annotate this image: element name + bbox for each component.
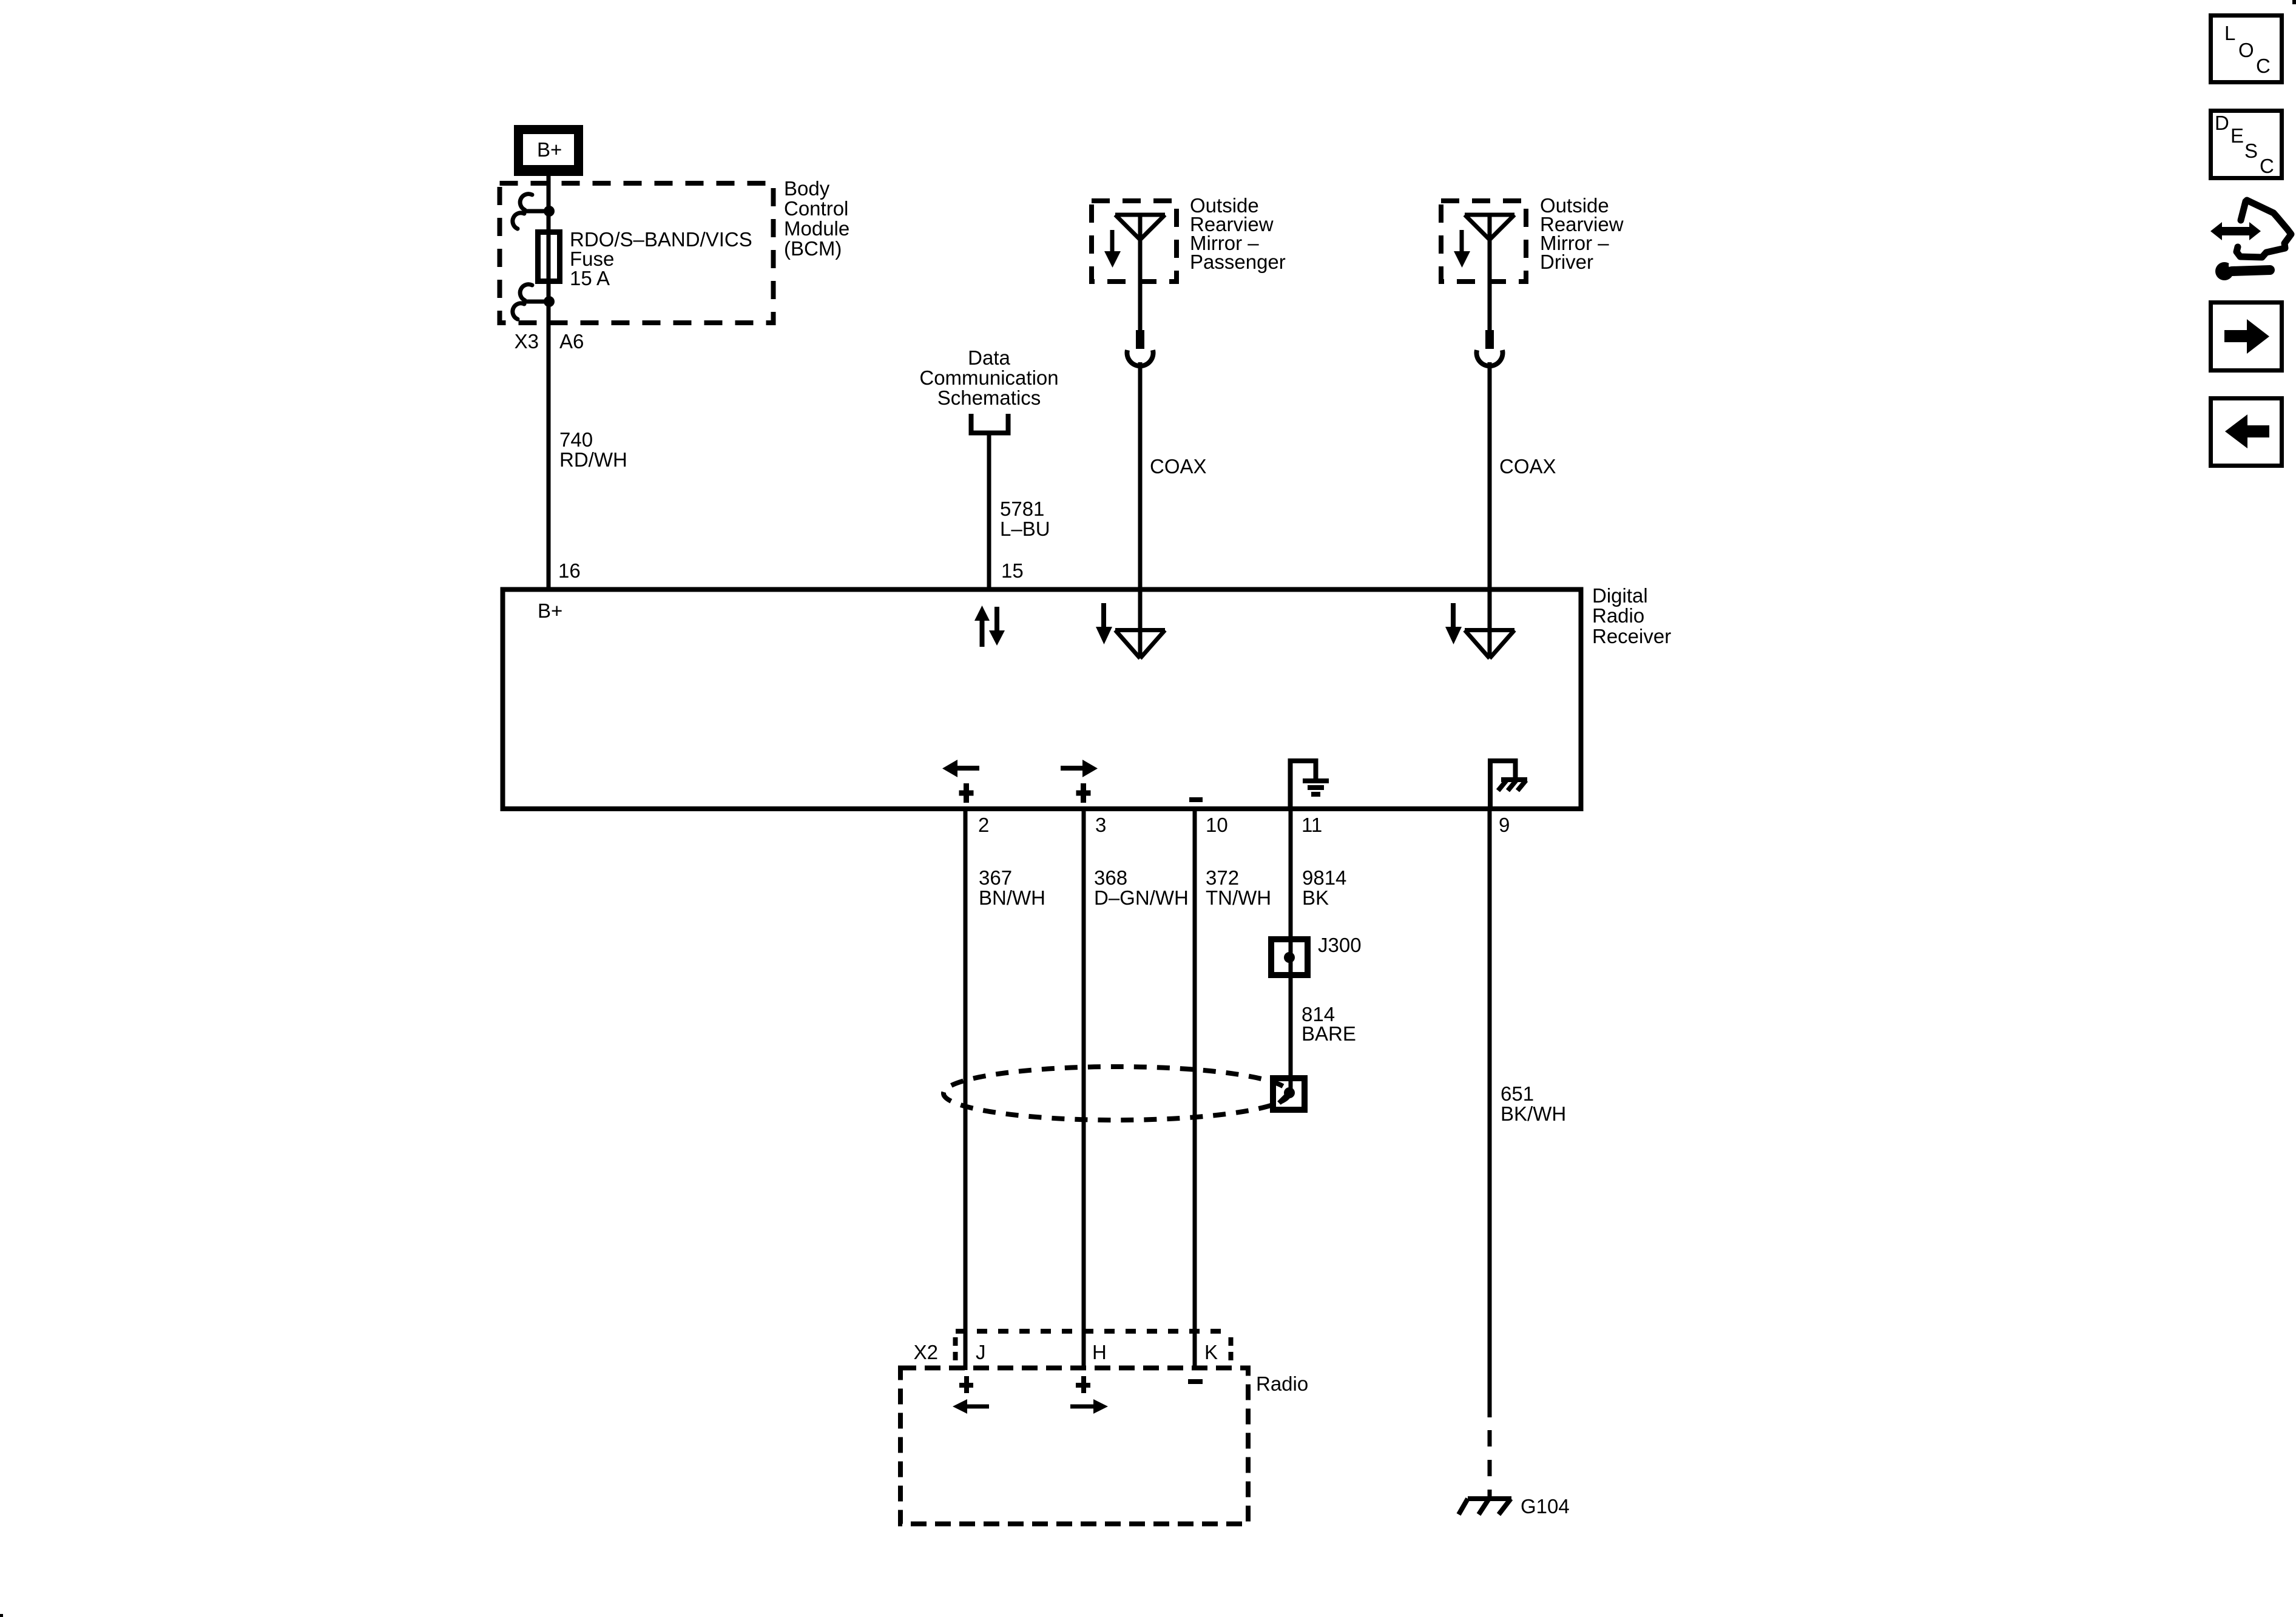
svg-text:G104: G104	[1521, 1495, 1570, 1517]
svg-text:D: D	[2215, 112, 2229, 134]
svg-text:C: C	[2260, 155, 2274, 177]
Outside Rearview Mirror - Driver dashed box	[1441, 201, 1526, 282]
svg-text:RD/WH: RD/WH	[559, 448, 627, 471]
left arrow pin 2	[956, 766, 979, 771]
bidirectional arrows pin 15	[974, 606, 1005, 647]
antenna symbol driver	[1465, 215, 1514, 330]
wire 372 TN/WH	[1193, 811, 1197, 1370]
svg-text:S: S	[2244, 140, 2258, 162]
svg-text:BARE: BARE	[1302, 1022, 1356, 1045]
svg-text:Communication: Communication	[919, 366, 1058, 389]
svg-text:(BCM): (BCM)	[784, 237, 842, 260]
svg-text:9: 9	[1499, 814, 1510, 836]
antenna symbol passenger	[1115, 215, 1165, 330]
wire 651 BK/WH	[1488, 811, 1492, 1417]
svg-text:368: 368	[1094, 866, 1127, 889]
svg-text:Schematics: Schematics	[937, 387, 1041, 409]
svg-text:16: 16	[558, 559, 581, 582]
plus pin H	[1076, 1376, 1090, 1393]
svg-text:X3: X3	[515, 330, 539, 353]
fuse terminal clip bottom	[513, 285, 546, 319]
wire 740 RD/WH from B+ through BCM fuse to pin 16	[547, 176, 551, 587]
svg-text:J300: J300	[1318, 934, 1362, 956]
left arrow pin J	[966, 1405, 989, 1409]
down arrow + antenna pin (driver coax input)	[1451, 603, 1456, 629]
down arrow in driver mirror box	[1460, 230, 1464, 252]
sidebar repair-tools icon	[2210, 200, 2291, 280]
plus pin 2	[959, 783, 974, 803]
junction block J300	[1271, 939, 1308, 975]
shield ellipse (drain)	[944, 1067, 1289, 1120]
svg-text:COAX: COAX	[1150, 455, 1207, 478]
wire COAX driver	[1488, 362, 1492, 587]
wire 367 BN/WH	[964, 811, 968, 1370]
svg-text:10: 10	[1206, 814, 1228, 836]
svg-text:9814: 9814	[1302, 866, 1346, 889]
svg-text:D–GN/WH: D–GN/WH	[1094, 886, 1189, 909]
connector X2 dotted line	[956, 1331, 1231, 1360]
svg-text:L–BU: L–BU	[1000, 518, 1050, 540]
svg-text:B+: B+	[537, 138, 562, 161]
sidebar LOC button	[2211, 16, 2282, 83]
svg-text:J: J	[976, 1341, 986, 1363]
power terminal B+	[514, 125, 583, 176]
wire 9814 BK	[1289, 811, 1293, 1080]
svg-text:15 A: 15 A	[570, 267, 610, 289]
svg-text:BK/WH: BK/WH	[1501, 1102, 1566, 1125]
svg-text:Module: Module	[784, 217, 849, 240]
svg-text:Passenger: Passenger	[1190, 251, 1286, 273]
svg-text:Radio: Radio	[1592, 604, 1644, 627]
fuse terminal clip top	[513, 194, 546, 229]
fuse RDO/S-BAND/VICS 15 A	[538, 232, 560, 282]
svg-text:372: 372	[1206, 866, 1239, 889]
chassis ground symbol pin 9	[1490, 761, 1527, 809]
svg-text:A6: A6	[559, 330, 584, 353]
coax inline connector passenger	[1136, 330, 1144, 349]
earth ground symbol pin 11	[1291, 761, 1329, 809]
svg-text:Receiver: Receiver	[1592, 625, 1671, 647]
Body Control Module (BCM) dashed box	[500, 183, 774, 323]
svg-text:Digital: Digital	[1592, 584, 1648, 607]
svg-text:B+: B+	[538, 599, 562, 622]
svg-text:Driver: Driver	[1540, 251, 1593, 273]
minus pin 10	[1189, 797, 1203, 802]
wire 5781 L-BU	[987, 435, 991, 587]
svg-text:5781: 5781	[1000, 498, 1044, 520]
svg-text:15: 15	[1001, 559, 1024, 582]
right arrow pin 3	[1061, 766, 1084, 771]
sidebar next-arrow button	[2211, 303, 2282, 371]
minus pin K	[1188, 1379, 1203, 1384]
down arrow in passenger mirror box	[1110, 230, 1115, 252]
svg-text:651: 651	[1501, 1082, 1534, 1105]
sidebar DESC button	[2211, 111, 2282, 178]
svg-text:740: 740	[559, 428, 593, 451]
svg-text:Body: Body	[784, 177, 830, 200]
svg-text:L: L	[2224, 22, 2235, 44]
corner mark top right	[2292, 0, 2296, 4]
svg-text:2: 2	[978, 814, 989, 836]
off-page connector bracket	[969, 414, 1011, 433]
coax inline connector driver	[1485, 330, 1494, 349]
ground G104 chassis symbol	[1459, 1499, 1511, 1514]
svg-text:11: 11	[1302, 814, 1322, 836]
down arrow + antenna pin (passenger coax input)	[1101, 603, 1106, 629]
svg-text:X2: X2	[914, 1341, 938, 1363]
svg-text:E: E	[2230, 124, 2244, 147]
wire COAX passenger	[1138, 362, 1143, 587]
svg-text:367: 367	[979, 866, 1012, 889]
svg-text:K: K	[1204, 1341, 1218, 1363]
svg-text:BK: BK	[1302, 886, 1329, 909]
shield splice box	[1273, 1078, 1305, 1110]
svg-text:3: 3	[1095, 814, 1106, 836]
Outside Rearview Mirror - Passenger dashed box	[1092, 201, 1177, 282]
plus pin J	[959, 1376, 973, 1393]
Digital Radio Receiver box	[503, 590, 1581, 809]
svg-text:Data: Data	[968, 346, 1010, 369]
sidebar back-arrow button	[2211, 399, 2282, 466]
svg-text:H: H	[1092, 1341, 1107, 1363]
corner mark bottom left	[0, 1614, 3, 1617]
wire 368 D-GN/WH	[1082, 811, 1086, 1370]
svg-text:O: O	[2238, 39, 2254, 61]
Radio dashed box	[900, 1368, 1248, 1524]
right arrow pin H	[1070, 1405, 1094, 1409]
svg-text:Control: Control	[784, 197, 848, 220]
svg-text:BN/WH: BN/WH	[979, 886, 1045, 909]
svg-text:TN/WH: TN/WH	[1206, 886, 1271, 909]
svg-text:C: C	[2256, 55, 2271, 77]
svg-text:Radio: Radio	[1256, 1372, 1308, 1395]
svg-text:COAX: COAX	[1499, 455, 1556, 478]
plus pin 3	[1076, 783, 1091, 803]
